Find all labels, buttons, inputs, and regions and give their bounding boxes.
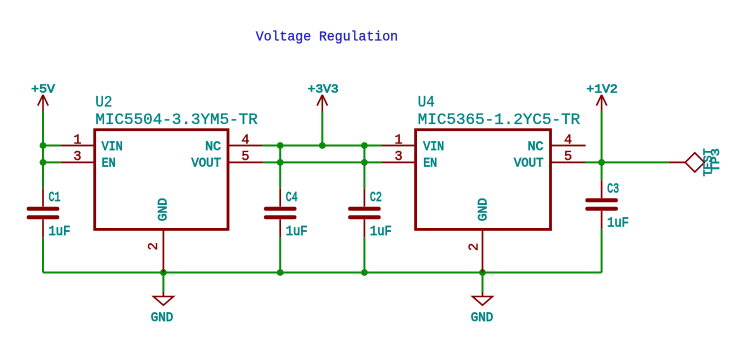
wire: C2 branch vertical upper: [363, 146, 365, 189]
capacitor C1: [29, 189, 58, 238]
U4 pin 5: [551, 161, 586, 163]
svg-text:U2: U2: [95, 94, 112, 112]
U2 pin 3: [61, 161, 94, 163]
junction dot row3 +5V: [40, 159, 47, 166]
svg-text:3: 3: [395, 150, 403, 165]
svg-text:TP3: TP3: [709, 148, 723, 172]
wire: row3 U2 VOUT to U4 EN: [263, 161, 382, 163]
svg-text:2: 2: [468, 243, 483, 251]
wire: +1V2 rail vertical lower (below C3): [601, 229, 603, 273]
wire: U2 GND stub to ground symbol: [162, 273, 164, 293]
svg-text:EN: EN: [102, 156, 116, 171]
svg-text:NC: NC: [205, 139, 221, 154]
junction dot row3 C4: [277, 159, 284, 166]
junction dot row1 C2: [361, 142, 368, 149]
junction dot row1 +5V: [40, 142, 47, 149]
U2 pin 1: [61, 145, 94, 147]
U2 pin 2: [162, 229, 164, 272]
svg-text:+1V2: +1V2: [586, 83, 617, 97]
svg-text:1uF: 1uF: [49, 224, 71, 240]
power symbol +5V: [38, 95, 48, 112]
svg-text:5: 5: [241, 150, 249, 165]
svg-text:VIN: VIN: [102, 139, 123, 154]
U4 pin 3: [382, 161, 415, 163]
wire: +5V rail vertical lower (below C1): [42, 237, 44, 272]
ground symbol (U4 side): [473, 292, 493, 305]
svg-text:GND: GND: [476, 198, 491, 222]
svg-text:C3: C3: [607, 182, 619, 198]
wire: row1 U2 NC to U4 VIN: [263, 145, 382, 147]
svg-text:4: 4: [564, 133, 572, 148]
op-amp U4 body: [416, 130, 551, 230]
svg-text:GND: GND: [156, 198, 171, 222]
svg-text:3: 3: [73, 150, 81, 165]
svg-text:GND: GND: [471, 310, 494, 325]
svg-text:1uF: 1uF: [286, 224, 308, 240]
capacitor C3: [587, 180, 616, 229]
svg-text:GND: GND: [151, 310, 174, 325]
svg-text:5: 5: [564, 150, 572, 165]
U4 pin 2: [482, 229, 484, 272]
test point TP3 diamond: [685, 153, 704, 172]
svg-text:1: 1: [395, 133, 403, 148]
svg-text:1uF: 1uF: [370, 224, 392, 240]
wire: ground bus horizontal: [43, 272, 602, 274]
wire: C2 branch vertical lower: [363, 237, 365, 272]
wire: +1V2 rail vertical upper: [601, 112, 603, 181]
svg-text:4: 4: [241, 133, 249, 148]
svg-text:MIC5504-3.3YM5-TR: MIC5504-3.3YM5-TR: [95, 111, 257, 129]
ground symbol (U2 side): [153, 292, 173, 305]
junction dot bus C2: [361, 269, 368, 276]
wire: C4 branch vertical upper: [279, 146, 281, 189]
wire: U4 GND stub to ground symbol: [482, 273, 484, 293]
junction dot row3 C2: [361, 159, 368, 166]
svg-text:EN: EN: [423, 156, 437, 171]
svg-text:VOUT: VOUT: [514, 156, 544, 171]
svg-text:VIN: VIN: [423, 139, 444, 154]
power symbol +1V2: [596, 95, 606, 112]
wire: row3 left to U2 EN: [43, 161, 61, 163]
svg-text:C1: C1: [49, 190, 61, 206]
svg-text:MIC5365-1.2YC5-TR: MIC5365-1.2YC5-TR: [418, 111, 580, 129]
junction dot bus U2 gnd: [160, 269, 167, 276]
U2 pin 4: [228, 145, 263, 147]
wire: +3V3 rail vertical: [321, 112, 323, 146]
svg-text:U4: U4: [418, 94, 435, 112]
junction dot row3 +1V2: [598, 159, 605, 166]
wire: +5V rail vertical upper: [42, 112, 44, 189]
svg-text:+5V: +5V: [31, 83, 56, 97]
capacitor C4: [266, 189, 295, 238]
op-amp U2 body: [95, 130, 228, 230]
svg-text:C2: C2: [370, 190, 382, 206]
test point TP3 pin: [669, 161, 685, 163]
svg-text:C4: C4: [286, 190, 298, 206]
wire: row3 U4 VOUT to TP3: [586, 161, 669, 163]
wire: row1 left to U2 VIN: [43, 145, 61, 147]
junction dot row1 +3V3: [319, 142, 326, 149]
svg-text:1: 1: [73, 133, 81, 148]
U4 pin 1: [382, 145, 415, 147]
power symbol +3V3: [317, 95, 327, 112]
junction dot bus U4 gnd: [479, 269, 486, 276]
capacitor C2: [350, 189, 379, 238]
junction dot row1 C4: [277, 142, 284, 149]
svg-text:2: 2: [147, 242, 162, 250]
svg-text:+3V3: +3V3: [308, 83, 339, 97]
svg-text:NC: NC: [528, 139, 544, 154]
svg-text:VOUT: VOUT: [191, 156, 221, 171]
junction dot bus C4: [277, 269, 284, 276]
svg-text:Voltage Regulation: Voltage Regulation: [256, 30, 398, 46]
wire: C4 branch vertical lower: [279, 237, 281, 272]
U4 pin 4 (NC stub): [551, 145, 586, 147]
svg-text:1uF: 1uF: [607, 216, 629, 232]
U2 pin 5: [228, 161, 263, 163]
